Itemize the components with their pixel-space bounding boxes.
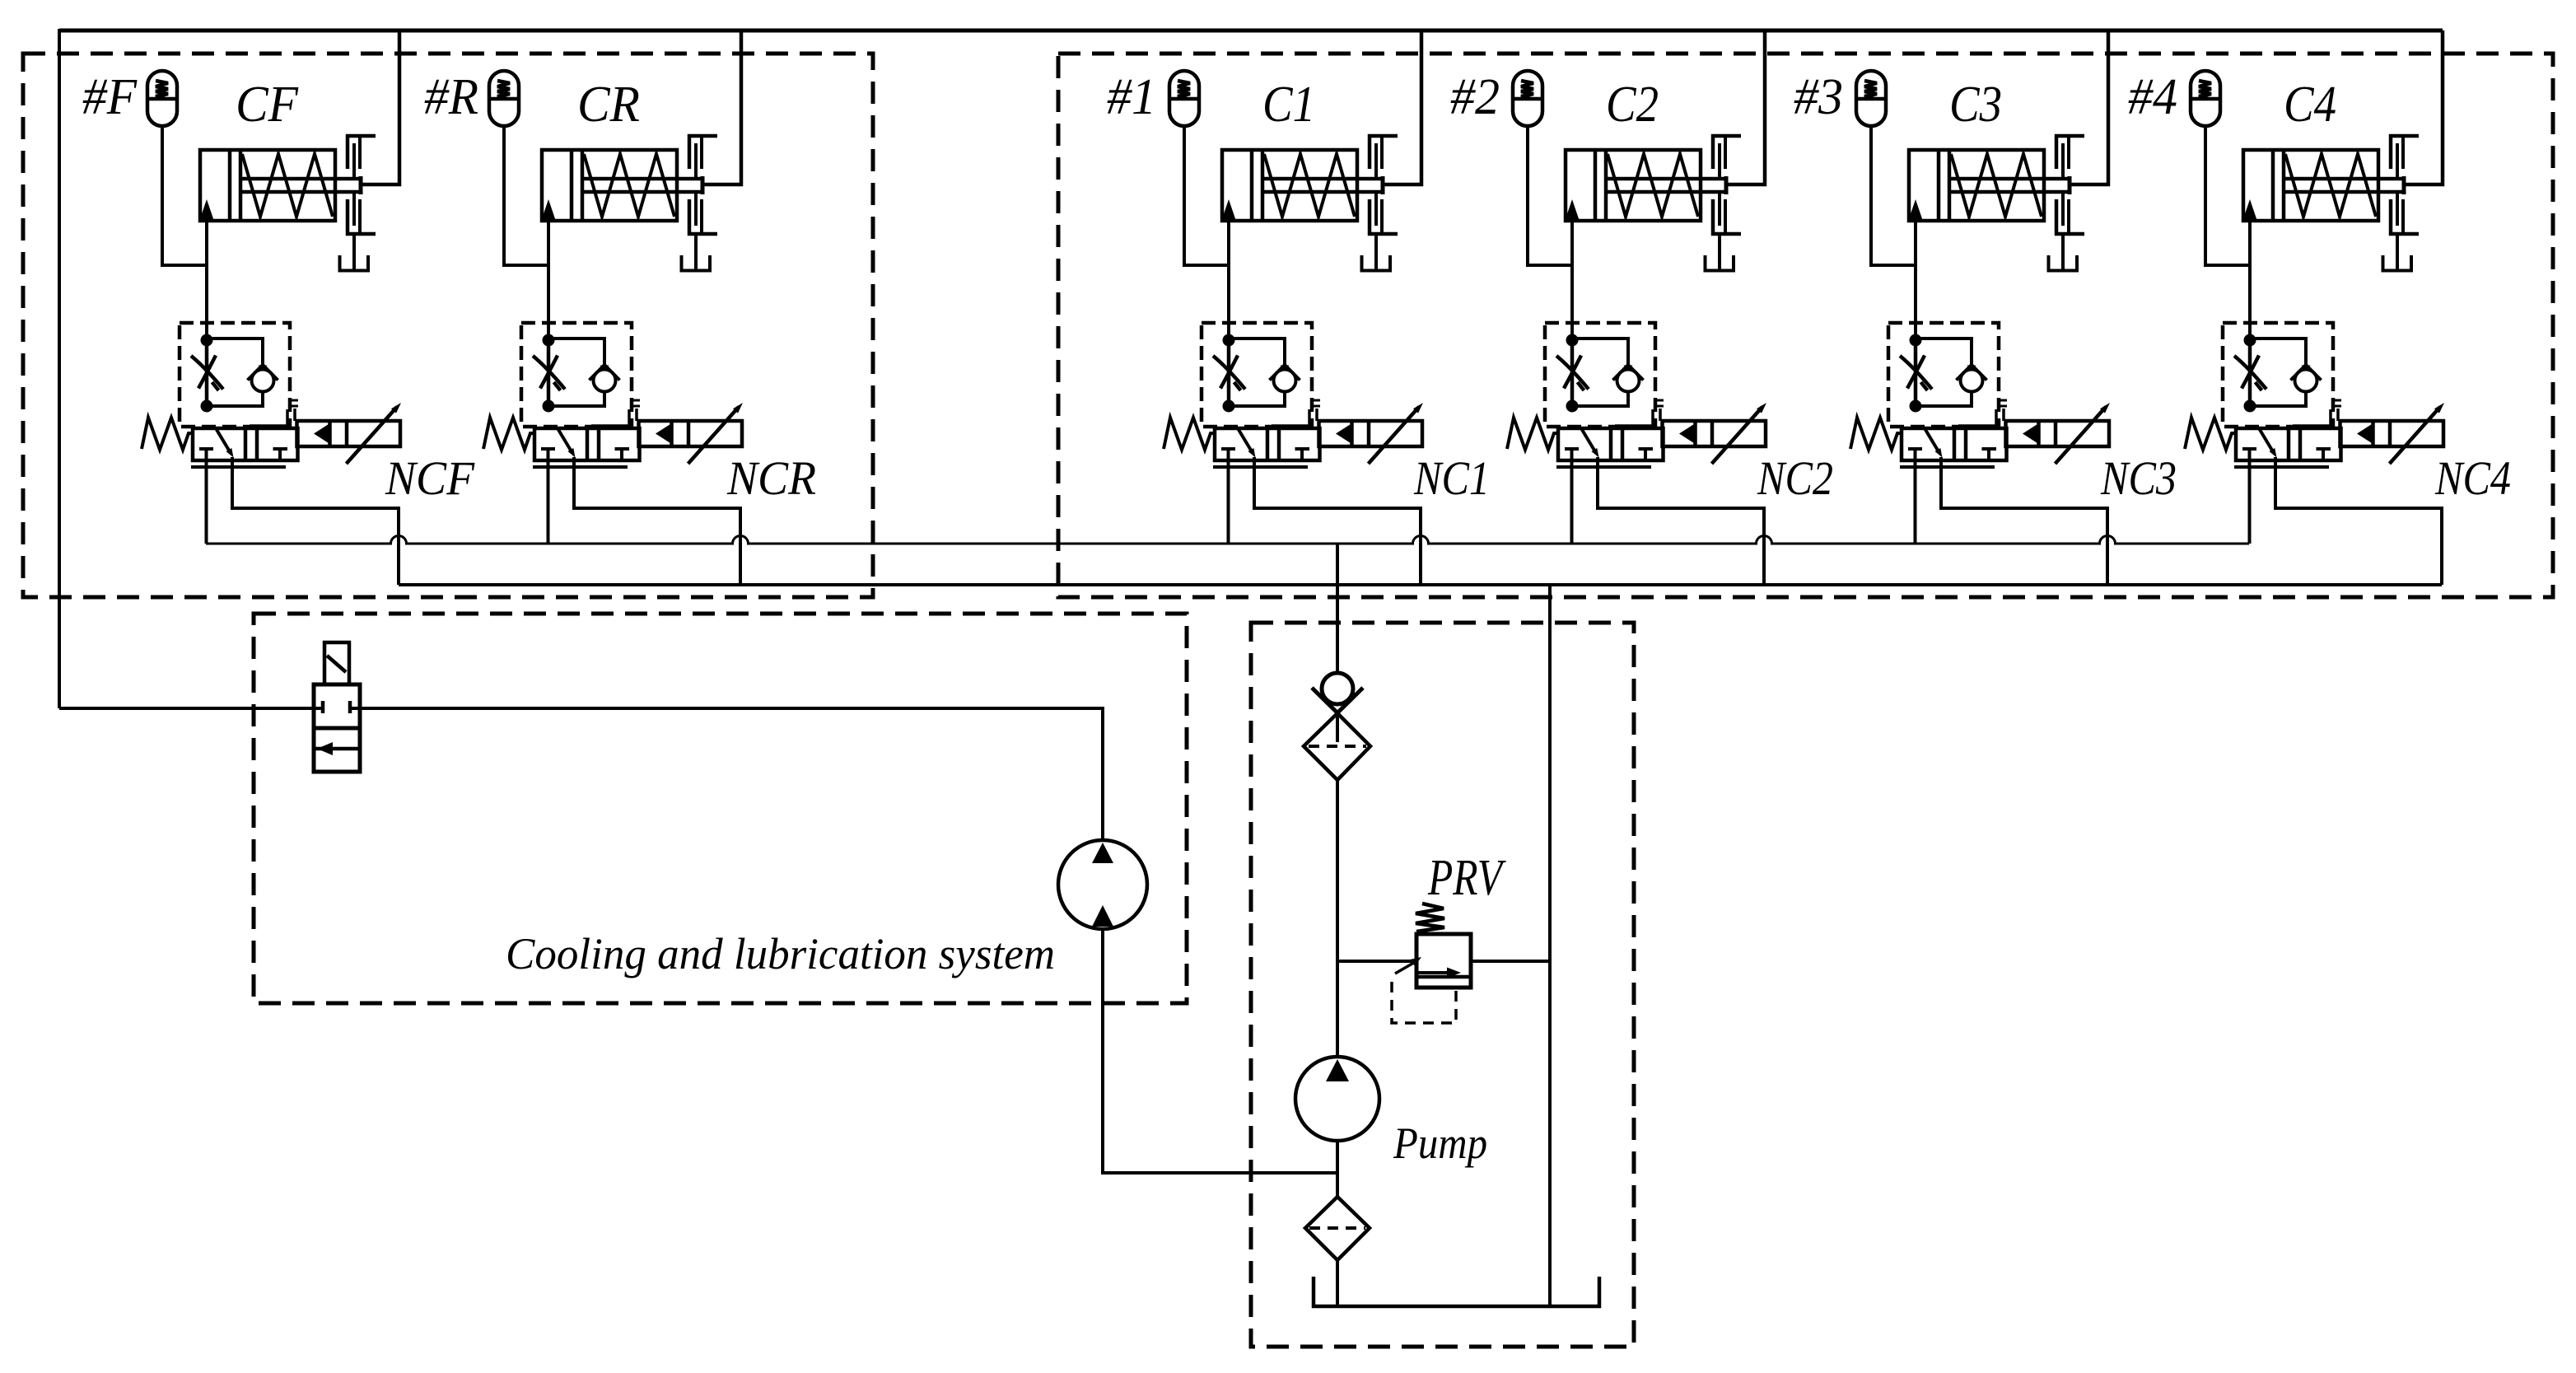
solenoid valve NC1 spring bbox=[1164, 418, 1215, 450]
label NC1 bbox=[1413, 451, 1490, 505]
load bracket at rod of C3 bbox=[2049, 134, 2085, 271]
label CR bbox=[577, 77, 640, 133]
throttle valve of C2 bbox=[1556, 340, 1589, 406]
wire accumulator #1 stem bbox=[1184, 126, 1229, 265]
wire PRV to return line bbox=[1471, 960, 1550, 963]
label C4 bbox=[2284, 77, 2336, 133]
svg-text:CF: CF bbox=[236, 77, 299, 133]
wire rod of CF to top bus bbox=[362, 30, 399, 184]
proportional solenoid of NCF bbox=[297, 403, 402, 464]
wire pump suction bbox=[1336, 1141, 1339, 1197]
solenoid valve NC4 body bbox=[2234, 428, 2341, 467]
wire accumulator #2 stem bbox=[1528, 126, 1572, 265]
svg-text:Pump: Pump bbox=[1393, 1118, 1487, 1168]
label #3 bbox=[1794, 69, 1843, 125]
throttle valve of CF bbox=[191, 340, 223, 406]
piston rod C1 bbox=[1262, 176, 1384, 194]
wire cylinder C3 port down bbox=[1914, 219, 1917, 340]
wire filter to pump bbox=[1336, 780, 1339, 1058]
piston rod C2 bbox=[1606, 176, 1728, 194]
wire NC1 port B to return bus bbox=[1254, 457, 1421, 585]
dashed enclosure box C1-C4 group bbox=[1058, 54, 2553, 597]
load bracket at rod of C4 bbox=[2383, 134, 2420, 271]
wire return bus to tank bbox=[1548, 585, 1552, 1305]
wire filter to tank bbox=[1336, 1260, 1339, 1305]
wire NC2 port B to return bus bbox=[1598, 457, 1764, 585]
svg-text:C2: C2 bbox=[1606, 77, 1659, 133]
load bracket at rod of C2 bbox=[1706, 134, 1742, 271]
flow control block (dashed) of CF bbox=[180, 323, 290, 427]
spring inside cylinder CR bbox=[584, 154, 674, 217]
node top of flow control C4 bbox=[2244, 334, 2256, 347]
wire rod of C1 to top bus bbox=[1384, 30, 1421, 184]
solenoid valve NCF body bbox=[191, 428, 298, 467]
svg-text:#3: #3 bbox=[1794, 69, 1843, 125]
node bottom of flow control CF bbox=[201, 400, 213, 413]
node bottom of flow control C4 bbox=[2244, 400, 2256, 413]
wire cylinder CF port down bbox=[205, 219, 208, 340]
accumulator #F bbox=[147, 71, 177, 126]
wire rod of C4 to top bus bbox=[2406, 30, 2443, 184]
cylinder CR body bbox=[542, 150, 677, 221]
wire rod of C2 to top bus bbox=[1728, 30, 1765, 184]
label Pump bbox=[1393, 1118, 1487, 1168]
label CF bbox=[236, 77, 299, 133]
label #F bbox=[82, 69, 138, 125]
accumulator #3 bbox=[1856, 71, 1886, 126]
label NC2 bbox=[1757, 451, 1833, 505]
port arrow inside cylinder C3 bbox=[1909, 199, 1923, 220]
flow control block (dashed) of C3 bbox=[1888, 323, 1999, 427]
svg-text:#4: #4 bbox=[2128, 69, 2177, 125]
svg-text:#2: #2 bbox=[1450, 69, 1500, 125]
tank bbox=[1314, 1277, 1599, 1306]
wire NCF port B to return bus bbox=[232, 457, 399, 585]
accumulator #2 bbox=[1513, 71, 1542, 126]
wire accumulator #F stem bbox=[162, 126, 207, 265]
spring inside cylinder CF bbox=[242, 154, 333, 217]
label #1 bbox=[1107, 69, 1156, 125]
port arrow inside cylinder CF bbox=[200, 199, 214, 220]
solenoid valve NC3 spring bbox=[1850, 418, 1902, 450]
flow control block (dashed) of C4 bbox=[2223, 323, 2333, 427]
wire motor to pump suction bbox=[1103, 929, 1337, 1173]
wire cylinder C2 port down bbox=[1570, 219, 1574, 340]
spring inside cylinder C4 bbox=[2285, 154, 2376, 217]
svg-text:NC1: NC1 bbox=[1413, 451, 1490, 505]
svg-text:CR: CR bbox=[577, 77, 640, 133]
throttle valve of C3 bbox=[1900, 340, 1932, 406]
svg-text:C3: C3 bbox=[1949, 77, 2002, 133]
cylinder C4 body bbox=[2243, 150, 2378, 221]
check valve of C1 bbox=[1229, 339, 1300, 406]
dashed pilot line of PRV bbox=[1392, 982, 1456, 1023]
svg-text:NCR: NCR bbox=[726, 451, 816, 505]
svg-text:#R: #R bbox=[424, 69, 478, 125]
label PRV bbox=[1427, 850, 1506, 906]
label NCF bbox=[385, 451, 474, 505]
throttle valve of CR bbox=[533, 340, 565, 406]
wire NC2 port A to pressure bus bbox=[1570, 460, 1574, 544]
wire NC1 port A to pressure bus bbox=[1227, 460, 1230, 544]
node top of flow control CF bbox=[201, 334, 213, 347]
node bottom of flow control C2 bbox=[1566, 400, 1579, 413]
pilot stubs NC3 bbox=[1958, 400, 2007, 428]
filter pressure line bbox=[1304, 713, 1370, 780]
wire accumulator #3 stem bbox=[1871, 126, 1916, 265]
svg-text:NC2: NC2 bbox=[1757, 451, 1833, 505]
piston rod C3 bbox=[1949, 176, 2071, 194]
wire NC4 port B to return bus bbox=[2275, 457, 2442, 585]
piston rod C4 bbox=[2284, 176, 2406, 194]
proportional solenoid of NCR bbox=[639, 403, 744, 464]
label C1 bbox=[1262, 77, 1315, 133]
cylinder CF body bbox=[200, 150, 335, 221]
wire pressure bus to check valve bbox=[1336, 544, 1339, 674]
svg-text:#F: #F bbox=[82, 69, 138, 125]
wire cylinder C1 port down bbox=[1227, 219, 1230, 340]
node top of flow control C1 bbox=[1223, 334, 1235, 347]
port arrow inside cylinder CR bbox=[542, 199, 556, 220]
flow control block (dashed) of C1 bbox=[1202, 323, 1312, 427]
wire rod of C3 to top bus bbox=[2071, 30, 2108, 184]
piston rod CF bbox=[240, 176, 362, 194]
label #4 bbox=[2128, 69, 2177, 125]
svg-text:C4: C4 bbox=[2284, 77, 2336, 133]
hydraulic motor (cooling pump) bbox=[1058, 840, 1147, 929]
solenoid valve NCR body bbox=[533, 428, 640, 467]
node bottom of flow control C3 bbox=[1910, 400, 1922, 413]
2/2 cooling shut-off valve bbox=[314, 642, 360, 772]
label NCR bbox=[726, 451, 816, 505]
solenoid valve NCR spring bbox=[483, 418, 534, 450]
label #2 bbox=[1450, 69, 1500, 125]
wire cylinder C4 port down bbox=[2248, 219, 2252, 340]
label NC4 bbox=[2434, 451, 2511, 505]
svg-text:NC3: NC3 bbox=[2100, 451, 2177, 505]
wire supply to cooling valve bbox=[59, 707, 314, 710]
flow control block (dashed) of C2 bbox=[1545, 323, 1655, 427]
check valve of CR bbox=[548, 339, 620, 406]
cylinder C3 body bbox=[1909, 150, 2044, 221]
accumulator #1 bbox=[1169, 71, 1199, 126]
spring inside cylinder C3 bbox=[1951, 154, 2042, 217]
load bracket at rod of CR bbox=[682, 134, 718, 271]
proportional solenoid of NC1 bbox=[1319, 403, 1424, 464]
pressure relief valve PRV bbox=[1395, 904, 1471, 988]
svg-text:C1: C1 bbox=[1262, 77, 1315, 133]
check valve of CF bbox=[207, 339, 278, 406]
proportional solenoid of NC3 bbox=[2006, 403, 2111, 464]
svg-text:NC4: NC4 bbox=[2434, 451, 2511, 505]
dashed enclosure box CF/CR group bbox=[23, 54, 873, 597]
check valve of C2 bbox=[1572, 339, 1644, 406]
spring inside cylinder C2 bbox=[1608, 154, 1698, 217]
port arrow inside cylinder C1 bbox=[1222, 199, 1236, 220]
svg-text:#1: #1 bbox=[1107, 69, 1156, 125]
wire NCR port B to return bus bbox=[574, 457, 740, 585]
node top of flow control C2 bbox=[1566, 334, 1579, 347]
wire cooling valve to motor bbox=[360, 708, 1103, 841]
svg-text:NCF: NCF bbox=[385, 451, 474, 505]
cylinder C1 body bbox=[1222, 150, 1357, 221]
label C3 bbox=[1949, 77, 2002, 133]
pilot stubs NC1 bbox=[1272, 400, 1320, 428]
load bracket at rod of CF bbox=[340, 134, 376, 271]
wire NCR port A to pressure bus bbox=[547, 460, 550, 544]
wire NC3 port B to return bus bbox=[1941, 457, 2107, 585]
wire rod of CR to top bus bbox=[704, 30, 741, 184]
wire top supply bus bbox=[59, 29, 2443, 33]
wire NC4 port A to pressure bus bbox=[2248, 460, 2252, 544]
pilot stubs NC2 bbox=[1615, 400, 1664, 428]
dashed box pump unit bbox=[1251, 623, 1634, 1347]
node bottom of flow control CR bbox=[543, 400, 555, 413]
wire return bus bbox=[399, 583, 2442, 586]
proportional solenoid of NC2 bbox=[1663, 403, 1767, 464]
check valve of C4 bbox=[2250, 339, 2322, 406]
node top of flow control C3 bbox=[1910, 334, 1922, 347]
accumulator #4 bbox=[2191, 71, 2220, 126]
throttle valve of C1 bbox=[1213, 340, 1245, 406]
wire accumulator #4 stem bbox=[2205, 126, 2250, 265]
svg-text:PRV: PRV bbox=[1427, 850, 1506, 906]
cylinder C2 body bbox=[1566, 150, 1701, 221]
wire accumulator #R stem bbox=[504, 126, 548, 265]
svg-text:Cooling and lubrication system: Cooling and lubrication system bbox=[506, 929, 1055, 978]
node top of flow control CR bbox=[543, 334, 555, 347]
port arrow inside cylinder C4 bbox=[2243, 199, 2257, 220]
check valve pump outlet bbox=[1312, 673, 1363, 742]
filter suction line bbox=[1305, 1197, 1370, 1260]
label Cooling and lubrication system bbox=[506, 929, 1055, 978]
pilot stubs NCR bbox=[591, 400, 640, 428]
solenoid valve NC2 spring bbox=[1507, 418, 1558, 450]
wire NCF port A to pressure bus bbox=[205, 460, 208, 544]
solenoid valve NCF spring bbox=[142, 418, 193, 450]
label NC3 bbox=[2100, 451, 2177, 505]
solenoid valve NC3 body bbox=[1900, 428, 2007, 467]
dashed box cooling and lubrication system bbox=[254, 614, 1187, 1003]
wire left supply drop bbox=[58, 29, 61, 708]
proportional solenoid of NC4 bbox=[2340, 403, 2445, 464]
accumulator #R bbox=[489, 71, 519, 126]
label #R bbox=[424, 69, 478, 125]
pump bbox=[1295, 1057, 1379, 1141]
solenoid valve NC4 spring bbox=[2185, 418, 2236, 450]
pilot stubs NC4 bbox=[2293, 400, 2341, 428]
wire NC3 port A to pressure bus bbox=[1914, 460, 1917, 544]
pilot stubs NCF bbox=[250, 400, 298, 428]
throttle valve of C4 bbox=[2234, 340, 2266, 406]
spring inside cylinder C1 bbox=[1264, 154, 1355, 217]
load bracket at rod of C1 bbox=[1362, 134, 1398, 271]
piston rod CR bbox=[582, 176, 704, 194]
port arrow inside cylinder C2 bbox=[1566, 199, 1580, 220]
node bottom of flow control C1 bbox=[1223, 400, 1235, 413]
wire pressure bus (thin, with crossover hops) bbox=[206, 536, 2249, 544]
wire cylinder CR port down bbox=[547, 219, 550, 340]
wire PRV branch left bbox=[1337, 960, 1416, 963]
flow control block (dashed) of CR bbox=[521, 323, 632, 427]
check valve of C3 bbox=[1916, 339, 1987, 406]
label C2 bbox=[1606, 77, 1659, 133]
solenoid valve NC1 body bbox=[1213, 428, 1320, 467]
solenoid valve NC2 body bbox=[1556, 428, 1664, 467]
